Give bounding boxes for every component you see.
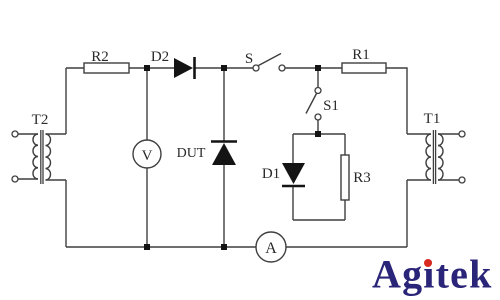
transformer T1 [407,111,465,184]
svg-text:R3: R3 [353,170,371,186]
voltmeter V [133,140,161,168]
T2 secondary winding [46,134,51,180]
wire top rail S to junction [285,67,342,69]
wire S1 branch upper [317,68,319,87]
wire parallel-loop bottom [293,219,345,221]
wire parallel-loop left lower [292,187,294,220]
svg-text:R2: R2 [91,49,109,65]
T1 primary winding [426,134,431,180]
wire top rail R2 to D2 [129,67,174,69]
wire left rail lower [65,180,67,247]
wire DUT branch upper [223,68,225,141]
node T1 secondary top terminal [459,131,465,137]
wire parallel-loop right upper [344,134,346,155]
wire parallel-loop right lower [344,200,346,220]
ammeter A [256,232,286,262]
wire bottom rail right of ammeter [286,246,407,248]
junction top rail at voltmeter branch [144,65,150,71]
wire T2 primary top lead [18,133,38,135]
T2 core [40,130,42,184]
wire top rail R1 to right corner [386,68,407,134]
node T1 secondary bottom terminal [459,177,465,183]
diode D2 [151,49,195,79]
svg-text:D1: D1 [262,166,280,182]
wire bottom rail left of ammeter [66,246,256,248]
wire T1 primary top lead [407,133,431,135]
resistor R3 [341,155,371,200]
svg-text:Agitek: Agitek [372,252,493,297]
svg-text:A: A [265,240,277,257]
wire parallel-loop top [293,133,345,135]
svg-text:S1: S1 [323,98,339,114]
Agitek logo [372,252,493,297]
wire T2 secondary top lead [46,133,67,135]
wire voltmeter branch lower [146,168,148,247]
wire T1 secondary bottom lead [438,179,459,181]
wire top rail D2 to switch S [195,67,253,69]
transformer T2 [12,112,66,184]
resistor R2 [84,49,129,73]
wire T2 primary bottom lead [18,178,38,180]
switch S [245,51,285,71]
T1 secondary winding [438,134,443,180]
svg-text:T2: T2 [32,112,49,128]
wire right rail lower [406,180,408,247]
svg-text:V: V [142,148,153,164]
wire top rail left segment [66,67,84,69]
wire left rail upper [65,68,67,134]
wire S1 branch lower [317,120,319,134]
svg-text:R1: R1 [352,47,370,63]
diode D1 [262,163,305,186]
junction S1 to loop top [315,131,321,137]
wire T1 primary bottom lead [407,179,431,181]
switch S1 [306,88,339,121]
node T2 primary top terminal [12,131,18,137]
thyristor DUT [177,142,237,166]
T1 core [432,130,434,184]
svg-text:T1: T1 [424,111,441,127]
wire parallel-loop left upper [292,134,294,163]
wire T1 secondary top lead [438,133,459,135]
wire T2 secondary bottom lead [46,179,67,181]
junction top rail at S1 branch [315,65,321,71]
node T2 primary bottom terminal [12,176,18,182]
junction bottom rail at voltmeter branch [144,244,150,250]
svg-text:S: S [245,51,253,67]
svg-text:DUT: DUT [177,146,206,161]
junction top rail at DUT branch [221,65,227,71]
T2 primary winding [33,134,38,179]
resistor R1 [342,47,386,73]
junction bottom rail at DUT branch [221,244,227,250]
svg-text:D2: D2 [151,49,169,65]
wire voltmeter branch upper [146,68,148,140]
wire DUT branch lower [223,165,225,247]
